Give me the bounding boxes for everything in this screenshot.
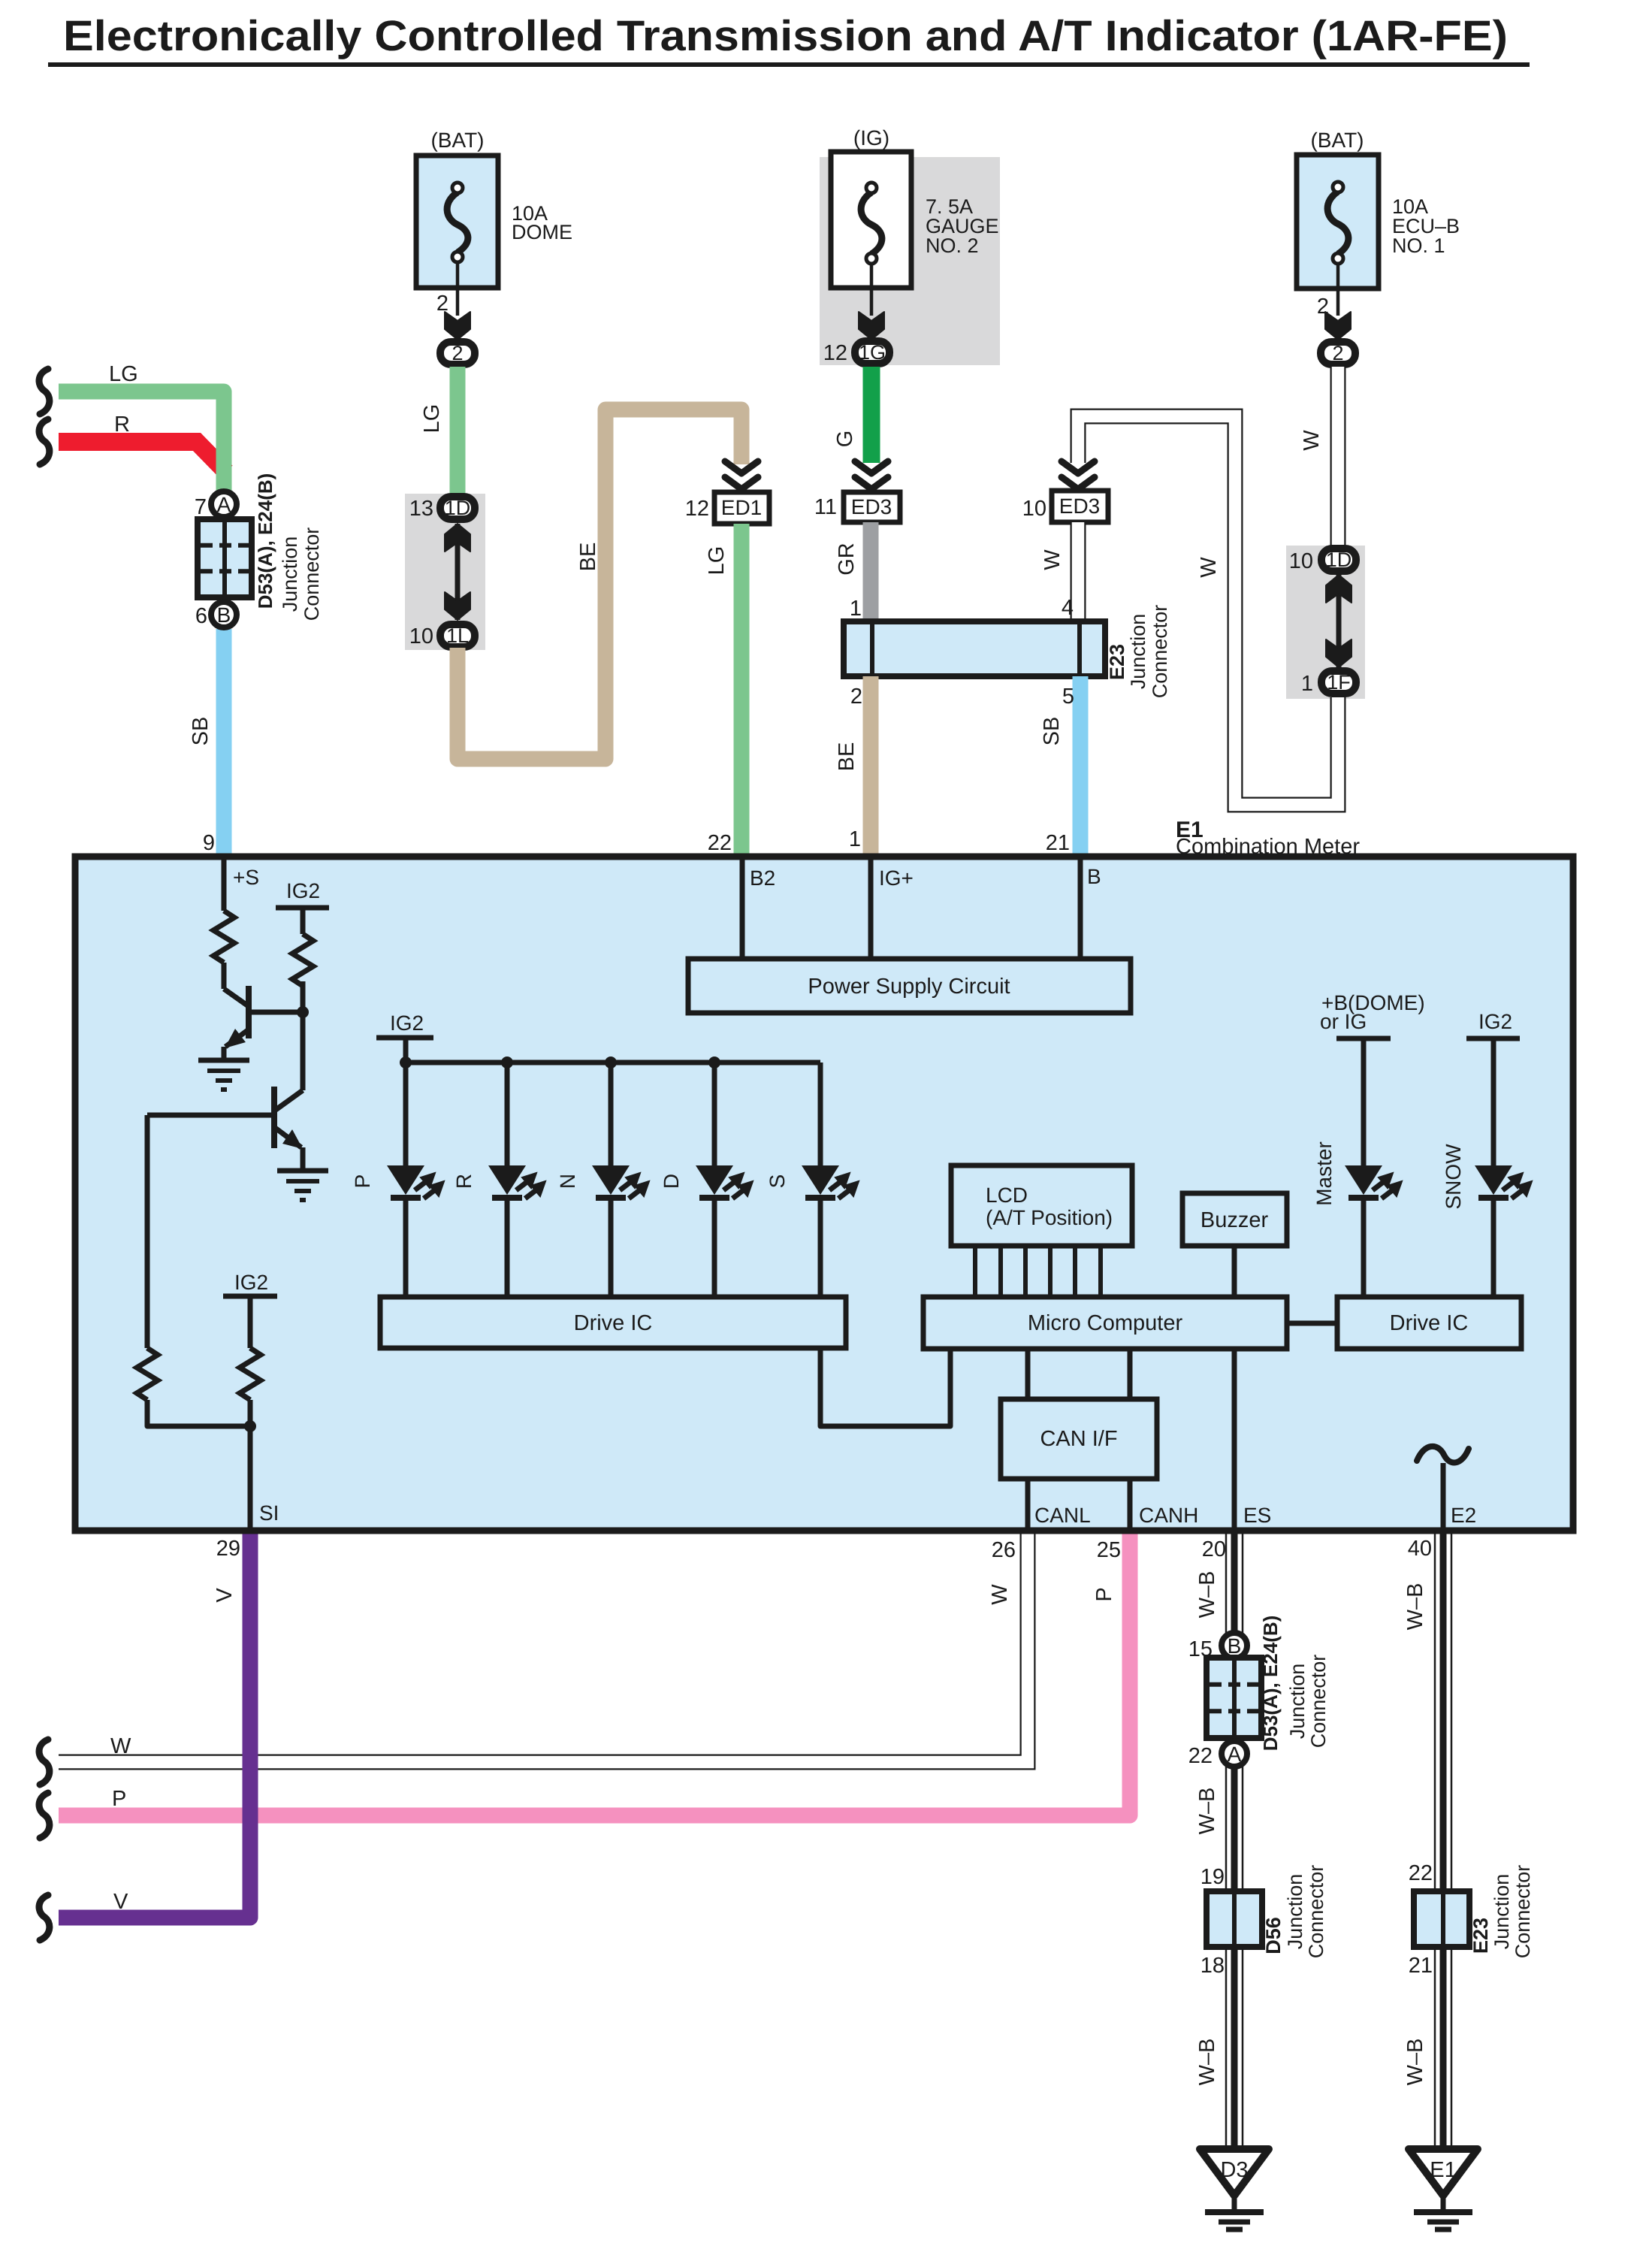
title underline [48, 62, 1530, 67]
svg-text:R: R [452, 1174, 476, 1189]
svg-text:IG2: IG2 [390, 1011, 424, 1035]
wire V from meter pin 29 (SI) [59, 1534, 250, 1918]
transistor Q2 (NPN) base bar [271, 1087, 277, 1148]
svg-text:1: 1 [850, 597, 862, 621]
wire Micro Computer to Drive IC (right) [1287, 1321, 1337, 1326]
svg-text:W–B: W–B [1195, 2039, 1219, 2086]
fuse GAUGE NO.2 box [831, 152, 911, 288]
connector ED1 box [714, 492, 769, 524]
svg-text:1: 1 [849, 827, 861, 851]
wires Micro Computer to CAN I/F [1025, 1349, 1031, 1399]
svg-text:CAN I/F: CAN I/F [1040, 1427, 1117, 1451]
wire Drive IC to Micro Computer [820, 1348, 950, 1426]
LED R [488, 1165, 526, 1195]
svg-text:BE: BE [576, 543, 600, 572]
CAN I/F box [1001, 1399, 1157, 1479]
svg-text:NO. 2: NO. 2 [926, 234, 979, 257]
pin A circle (D53 upper) [211, 491, 237, 517]
svg-text:W–B: W–B [1195, 1788, 1219, 1835]
svg-text:26: 26 [992, 1538, 1016, 1562]
pin stub CANL [1025, 1479, 1031, 1528]
wire BE from E23 pin 2 to meter pin 1 [863, 676, 879, 856]
combination meter E1 border [75, 857, 1573, 1531]
svg-text:W: W [1300, 430, 1324, 451]
connector ED3 arrow (pin 11) [855, 461, 888, 473]
svg-text:SB: SB [189, 717, 213, 746]
LED S [802, 1165, 839, 1195]
svg-text:BE: BE [835, 742, 859, 772]
svg-text:Connector: Connector [1307, 1655, 1330, 1749]
svg-text:21: 21 [1046, 831, 1070, 855]
LED anode drop wires [403, 1063, 409, 1165]
Q1 emitter with arrow [225, 1029, 249, 1047]
buzzer box [1182, 1193, 1287, 1246]
svg-text:10: 10 [409, 624, 433, 648]
svg-text:(A/T Position): (A/T Position) [986, 1206, 1113, 1229]
svg-text:1G: 1G [859, 341, 886, 364]
junction dot Q1 base node [297, 1006, 309, 1018]
D53 upper center divider [222, 519, 227, 597]
svg-text:P: P [1092, 1587, 1116, 1601]
wire LG from fuse DOME to junction 1D [450, 367, 466, 494]
svg-text:6: 6 [195, 604, 207, 628]
wire W from ED3 to E23 pin 4 [1071, 522, 1086, 621]
svg-text:SB: SB [1040, 717, 1064, 746]
svg-text:1D: 1D [1326, 549, 1352, 571]
svg-text:Junction: Junction [1286, 1664, 1309, 1740]
connector ED3 box (pin 11) [844, 492, 900, 522]
wire from DOME fuse pin 2 [456, 262, 460, 316]
svg-text:B: B [1087, 865, 1101, 888]
wire R1 to transistor Q1 [222, 963, 227, 989]
Q1 base wire [249, 1010, 303, 1015]
E23 pin cell divider right [1077, 621, 1082, 676]
break symbol on P wire [39, 1793, 50, 1838]
svg-text:P: P [351, 1174, 374, 1189]
wire R (cut) joining junction connector [59, 442, 226, 472]
svg-text:Electronically Controlled Tran: Electronically Controlled Transmission a… [63, 12, 1508, 60]
pin stub CANH [1128, 1479, 1133, 1528]
svg-text:V: V [213, 1588, 237, 1603]
svg-text:E23: E23 [1469, 1918, 1492, 1954]
LED anode rail [406, 1060, 820, 1066]
svg-text:LG: LG [420, 404, 444, 434]
resistor R1 on +S line [213, 911, 234, 963]
svg-text:or IG: or IG [1320, 1010, 1367, 1033]
junction connector E23 box [844, 621, 1105, 676]
svg-text:B: B [1228, 1634, 1242, 1658]
connector oval 1L [440, 624, 475, 647]
svg-text:22: 22 [1409, 1861, 1433, 1885]
drive IC box (right) [1337, 1297, 1521, 1349]
junction connector D56 box [1207, 1891, 1262, 1947]
junction dot SI node [244, 1420, 256, 1432]
svg-text:IG2: IG2 [234, 1271, 268, 1294]
svg-text:9: 9 [203, 831, 215, 855]
svg-text:12: 12 [823, 341, 847, 365]
LED SNOW [1475, 1165, 1512, 1195]
LED N [592, 1165, 630, 1195]
resistor R4 (right) [240, 1348, 261, 1400]
svg-text:P: P [112, 1787, 126, 1811]
LED P [387, 1165, 424, 1195]
svg-text:R: R [114, 413, 130, 437]
ground E1 [1409, 2149, 1478, 2196]
junction connector D53(A) E24(B) lower box [1207, 1658, 1261, 1738]
svg-text:13: 13 [409, 497, 433, 521]
svg-text:D3: D3 [1220, 2158, 1248, 2182]
svg-text:11: 11 [814, 495, 837, 519]
svg-text:ED3: ED3 [1059, 494, 1100, 518]
fuse ECU-B element symbol [1327, 192, 1348, 254]
pin stub +S [222, 860, 227, 911]
power supply circuit box [688, 959, 1131, 1013]
wire from ECU-B fuse pin 2 [1336, 264, 1340, 316]
wire G from 1G to connector ED3 [863, 367, 880, 463]
svg-text:2: 2 [850, 685, 862, 709]
connector oval 1F [1321, 671, 1356, 694]
svg-text:SI: SI [259, 1501, 279, 1525]
svg-text:Connector: Connector [1305, 1865, 1327, 1959]
svg-text:22: 22 [1188, 1744, 1213, 1768]
junction block 1D-1F shading [1286, 546, 1365, 699]
svg-text:Power Supply Circuit: Power Supply Circuit [808, 975, 1010, 999]
junction connector E23 lower box [1414, 1891, 1469, 1947]
wire W-B from meter pin 20 (ES) to ground D3 [1225, 1534, 1228, 2151]
svg-text:10: 10 [1289, 549, 1313, 573]
pin stub IG+ [868, 860, 874, 959]
arrow into connector 2 [1325, 312, 1351, 340]
Q2 collector wire [276, 1090, 303, 1110]
svg-text:W: W [988, 1584, 1012, 1605]
wire R4 to SI pin [248, 1400, 253, 1528]
wire BE from 1L to connector ED1 [458, 410, 741, 759]
svg-text:E23: E23 [1106, 644, 1128, 680]
svg-text:W–B: W–B [1195, 1571, 1219, 1619]
svg-text:B2: B2 [750, 866, 775, 890]
svg-text:Micro Computer: Micro Computer [1028, 1311, 1183, 1335]
svg-text:19: 19 [1200, 1865, 1225, 1889]
LED Master [1345, 1165, 1382, 1195]
wire W loop from 1F to combination meter region [1078, 416, 1338, 805]
svg-text:21: 21 [1409, 1954, 1433, 1978]
D56 center divider [1232, 1891, 1237, 1947]
wire LG (cut) to D53 pin 7A [59, 391, 224, 491]
svg-text:2: 2 [436, 292, 448, 316]
svg-text:(BAT): (BAT) [430, 128, 484, 152]
fuse DOME element symbol [447, 192, 468, 252]
arrow into connector 1G [859, 312, 884, 340]
svg-text:Master: Master [1312, 1141, 1336, 1206]
pin stub B2 [740, 860, 745, 959]
wire Buzzer to Micro Computer [1232, 1246, 1237, 1297]
svg-text:Drive IC: Drive IC [574, 1311, 653, 1335]
connector oval 2 (DOME) [440, 342, 475, 364]
resistor R3 (left) [137, 1348, 158, 1400]
connector oval 1D (ECU side) [1321, 549, 1356, 571]
svg-text:IG2: IG2 [1478, 1010, 1512, 1033]
wire R3 to SI node [147, 1400, 250, 1426]
drive IC box (left) [380, 1297, 846, 1348]
junction connector D53(A) E24(B) upper box [198, 519, 252, 597]
Q2 base wire to left rail [147, 1113, 274, 1118]
wire W from meter pin 26 (CANL) [59, 1534, 1028, 1762]
svg-text:IG+: IG+ [879, 866, 914, 890]
Q2 emitter with arrow [274, 1127, 301, 1147]
inter-connector arrow 1D to 1L [455, 524, 461, 620]
D53 upper dashed row dividers [201, 543, 249, 548]
svg-text:Connector: Connector [301, 527, 323, 621]
pin stub ES from Micro Computer [1232, 1349, 1237, 1528]
svg-text:1D: 1D [445, 497, 471, 519]
svg-text:2: 2 [452, 342, 463, 364]
svg-text:D: D [660, 1174, 683, 1189]
E23 pin cell divider left [870, 621, 874, 676]
svg-text:LG: LG [109, 362, 138, 386]
break symbol on V wire [39, 1895, 50, 1940]
wire W-B from meter pin 40 (E2) to ground E1 [1434, 1534, 1436, 2151]
fuse GAUGE element symbol [861, 192, 882, 254]
svg-text:E2: E2 [1451, 1504, 1476, 1527]
LED D [696, 1165, 733, 1195]
wire from GAUGE fuse [870, 264, 874, 316]
svg-text:25: 25 [1097, 1538, 1121, 1562]
svg-text:SNOW: SNOW [1442, 1144, 1465, 1210]
wire LG from ED1 to meter pin 22 [734, 524, 750, 856]
svg-text:LG: LG [705, 546, 729, 576]
connector ED1 arrow [725, 461, 758, 473]
svg-text:GR: GR [835, 543, 859, 576]
svg-text:(BAT): (BAT) [1310, 128, 1364, 152]
svg-text:10: 10 [1022, 497, 1046, 521]
svg-text:CANL: CANL [1034, 1504, 1091, 1527]
svg-text:A: A [217, 493, 231, 516]
svg-text:ED1: ED1 [721, 496, 762, 519]
connector ED3 arrow (pin 10) [1062, 461, 1095, 473]
E23 lower center divider [1441, 1891, 1445, 1947]
svg-text:G: G [833, 431, 857, 448]
svg-text:E1: E1 [1430, 2158, 1456, 2182]
svg-text:S: S [766, 1174, 789, 1189]
fuse ECU-B NO.1 box [1297, 155, 1379, 289]
svg-text:ED3: ED3 [851, 495, 892, 518]
svg-text:12: 12 [685, 497, 709, 521]
fuse GAUGE NO.2 shading [820, 157, 1000, 365]
svg-text:(IG): (IG) [853, 126, 889, 150]
svg-text:+S: +S [233, 866, 259, 889]
svg-text:W–B: W–B [1403, 2039, 1427, 2086]
svg-text:CANH: CANH [1139, 1504, 1198, 1527]
svg-text:Connector: Connector [1512, 1865, 1534, 1959]
E2 internal lead with curl [1417, 1446, 1469, 1463]
svg-text:22: 22 [708, 831, 732, 855]
connector oval 1G [855, 341, 889, 364]
wire GR from ED3 to junction connector E23 pin 1 [863, 522, 879, 621]
svg-text:W: W [110, 1734, 131, 1758]
svg-text:Buzzer: Buzzer [1200, 1208, 1269, 1232]
wire W from ECU-B fuse to junction 1D [1330, 367, 1346, 546]
wire SB from E23 pin 5 to meter pin 21 [1073, 676, 1089, 856]
pin stub B [1078, 860, 1083, 959]
svg-text:7: 7 [195, 495, 207, 519]
svg-text:W: W [1197, 557, 1221, 578]
wire P from meter pin 25 (CANH) [59, 1534, 1130, 1815]
svg-text:Connector: Connector [1149, 605, 1171, 699]
pin B circle (D53 upper) [211, 602, 237, 627]
svg-text:Junction: Junction [1127, 614, 1149, 690]
micro computer box [923, 1297, 1287, 1349]
combination meter E1 body [75, 857, 1573, 1531]
transistor Q1 (PNP) base bar [246, 986, 252, 1038]
ground (Q1 emitter) [198, 1058, 249, 1063]
svg-text:V: V [113, 1890, 128, 1914]
wire SB from D53 pin 6B to meter pin 9 [216, 629, 232, 856]
ground D3 [1200, 2149, 1269, 2196]
svg-text:B: B [217, 603, 231, 627]
svg-text:DOME: DOME [512, 221, 572, 243]
connector oval 1D [440, 497, 475, 519]
svg-text:5: 5 [1062, 685, 1074, 709]
connector ED3 box (pin 10) [1052, 491, 1108, 522]
svg-text:D53(A), E24(B): D53(A), E24(B) [254, 473, 276, 609]
svg-text:Junction: Junction [1490, 1874, 1513, 1950]
svg-text:N: N [556, 1174, 579, 1189]
svg-text:Drive IC: Drive IC [1390, 1311, 1469, 1335]
svg-text:W: W [1040, 549, 1065, 570]
ground (Q2 emitter) [277, 1168, 328, 1174]
svg-text:Junction: Junction [279, 537, 301, 612]
LCD pin wires to Micro Computer [973, 1246, 977, 1297]
svg-text:A: A [1228, 1743, 1242, 1766]
break symbol on LG wire [39, 369, 50, 414]
svg-text:4: 4 [1062, 596, 1074, 620]
fuse DOME 10A box [416, 156, 498, 288]
svg-text:2: 2 [1332, 342, 1343, 364]
svg-text:40: 40 [1408, 1537, 1432, 1561]
D53 lower dashed row dividers [1210, 1682, 1258, 1687]
svg-text:Junction: Junction [1284, 1874, 1306, 1950]
svg-text:LCD: LCD [986, 1183, 1028, 1207]
inter-connector arrow 1D to 1F [1336, 575, 1342, 667]
svg-text:29: 29 [216, 1537, 240, 1561]
pin B circle (D53 lower) [1222, 1633, 1247, 1658]
svg-text:IG2: IG2 [286, 879, 320, 902]
svg-text:1F: 1F [1327, 671, 1351, 694]
svg-text:20: 20 [1202, 1537, 1226, 1561]
pin A circle (D53 lower) [1222, 1741, 1247, 1767]
arrow into connector 2 [445, 312, 470, 340]
svg-text:D56: D56 [1262, 1917, 1285, 1954]
LCD (A/T Position) box [951, 1165, 1132, 1246]
svg-text:1: 1 [1301, 672, 1313, 696]
wire R2 to Q1 base node [301, 981, 306, 1090]
break symbol on W wire [39, 1740, 50, 1785]
svg-text:NO. 1: NO. 1 [1392, 234, 1445, 257]
svg-text:D53(A), E24(B): D53(A), E24(B) [1259, 1616, 1282, 1752]
LED cathode wires to Drive IC [403, 1196, 409, 1297]
resistor R2 from IG2 [292, 934, 313, 986]
junction dots on anode rail [400, 1056, 412, 1069]
svg-text:1L: 1L [446, 624, 469, 647]
D53 lower center divider [1232, 1658, 1237, 1738]
break symbol on R wire [39, 419, 50, 464]
connector oval 2 (ECU-B) [1321, 342, 1355, 364]
junction block 1D-1L shading [405, 494, 485, 650]
svg-text:W–B: W–B [1403, 1583, 1427, 1631]
svg-text:18: 18 [1200, 1954, 1225, 1978]
svg-text:ES: ES [1243, 1504, 1271, 1527]
